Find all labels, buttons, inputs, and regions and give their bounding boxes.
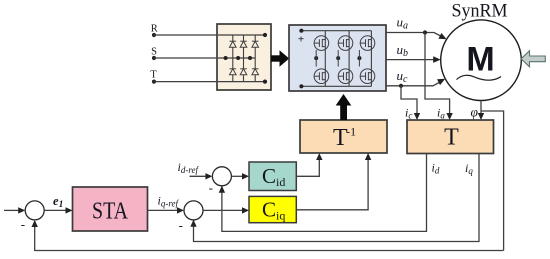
transistor Q5 <box>338 69 353 84</box>
rectifier leg 1 wire <box>232 35 234 82</box>
svg-text:SynRM: SynRM <box>452 1 508 22</box>
wire reference input <box>4 209 19 211</box>
wire d summing node to Cid <box>231 175 242 177</box>
wire phase T to rectifier bottom bus <box>154 81 265 83</box>
svg-text:-: - <box>209 180 213 195</box>
rectifier top bus wire <box>218 34 265 36</box>
rectifier block body <box>217 24 271 90</box>
transistor Q1 <box>314 36 329 51</box>
arrowhead id into d summing node <box>219 186 225 193</box>
arrowhead into Ciq <box>242 207 249 213</box>
inverter top bus dot <box>299 29 303 33</box>
diode D1 <box>230 41 237 47</box>
inverter bottom bus dot <box>299 84 303 88</box>
svg-text:+: + <box>298 34 304 46</box>
junction dot ic tap <box>399 84 403 88</box>
arrowhead uc into motor <box>437 76 447 85</box>
inverter leg 3 wire <box>370 31 372 87</box>
wire STA to q summing node <box>148 209 178 211</box>
rectifier top bus junction dot <box>263 33 267 37</box>
rectifier bottom bus junction dot <box>263 80 267 84</box>
wire ic tap down and over to T <box>401 86 417 114</box>
rectifier mid rail wire <box>218 57 255 59</box>
svg-text:M: M <box>466 41 494 79</box>
wire summing node 1 to STA <box>44 209 66 211</box>
arrowhead into d summing node <box>205 173 212 179</box>
wire ia tap down and over to T <box>425 33 450 114</box>
block T inverse body <box>300 120 387 153</box>
bold gate arrow T inverse to inverter <box>336 94 352 120</box>
arrowhead reference input <box>18 207 25 213</box>
wire Cid to T inverse <box>296 160 319 177</box>
wire speed feedback bottom rail <box>35 221 504 250</box>
svg-text:T: T <box>444 125 459 151</box>
diode D3 <box>252 41 259 47</box>
arrowhead into Cid <box>242 173 249 179</box>
junction dot ia tap <box>423 30 427 34</box>
transistor Q4 <box>314 69 329 84</box>
rectifier bottom bus wire <box>218 81 265 83</box>
svg-text:-: - <box>179 217 183 232</box>
summing node 1 <box>25 201 44 220</box>
wire id output of T <box>222 154 427 232</box>
arrowhead speed feedback into summing node 1 <box>32 220 38 227</box>
wire phase R to rectifier top bus <box>154 34 265 36</box>
wire q summing node to Ciq <box>203 209 243 211</box>
motor M1 circle <box>441 20 522 101</box>
arrowhead into q summing node <box>177 207 184 213</box>
svg-text:-: - <box>21 216 25 231</box>
rectifier leg 3 wire <box>254 35 256 82</box>
arrowhead into STA <box>66 207 73 213</box>
diode D2 <box>240 41 247 47</box>
inverter leg 2 wire <box>348 31 350 87</box>
transistor Q6 <box>360 69 375 84</box>
block T body <box>407 120 494 154</box>
rectifier mid rail junction dot 3 <box>248 56 252 60</box>
rectifier mid rail junction dot 1 <box>224 56 228 60</box>
motor wave mark <box>457 75 502 80</box>
arrowhead Cid into T inverse <box>316 153 322 160</box>
arrowhead ic into T <box>414 113 420 120</box>
svg-text:S: S <box>151 46 157 57</box>
svg-text:STA: STA <box>92 199 129 225</box>
arrowhead ub into motor <box>433 56 441 63</box>
inverter leg 1 wire <box>324 31 326 87</box>
node T junction dot <box>152 80 156 84</box>
wire ub inverter to motor <box>386 59 434 61</box>
arrowhead ua into motor <box>438 33 448 42</box>
summing node q <box>184 201 203 220</box>
diode D5 <box>240 69 247 75</box>
node S junction dot <box>152 56 156 60</box>
rectifier leg 2 wire <box>243 35 245 82</box>
transistor Q3 <box>360 36 375 51</box>
wire id-ref input <box>190 175 206 177</box>
arrowhead ia into T <box>446 113 452 120</box>
diode D6 <box>252 69 259 75</box>
rectifier mid rail junction dot 2 <box>236 56 240 60</box>
inverter gate node dot 1 <box>314 50 318 67</box>
DC-link bold arrow rectifier to inverter <box>271 50 289 66</box>
wire phi branch to right rail <box>481 111 504 251</box>
svg-text:R: R <box>151 24 158 35</box>
diode D4 <box>230 69 237 75</box>
inverter block body <box>289 25 386 91</box>
inverter gate node dot 3 <box>357 50 361 67</box>
wire Ciq to T inverse <box>296 160 368 210</box>
arrowhead phi into T <box>478 113 484 120</box>
arrowhead Ciq into T inverse <box>365 153 371 160</box>
wire phase S to rectifier mid rail <box>154 57 255 59</box>
inverter top bus wire <box>301 30 371 32</box>
svg-text:φ: φ <box>471 105 479 120</box>
load arrow into motor (gray) <box>521 51 545 67</box>
wire phi motor to T <box>480 101 482 114</box>
inverter bottom bus wire <box>301 85 371 87</box>
node R junction dot <box>152 33 156 37</box>
wire uc inverter to motor <box>386 82 441 86</box>
svg-text:T: T <box>150 70 157 81</box>
summing node d <box>212 167 231 186</box>
transistor Q2 <box>338 36 353 51</box>
controller Ciq body <box>249 196 296 222</box>
arrowhead iq into q summing node <box>190 220 196 227</box>
inverter gate node dot 2 <box>336 50 340 67</box>
wire iq output of T <box>194 154 480 242</box>
controller STA body <box>73 187 148 231</box>
controller Cid body <box>249 162 296 191</box>
wire ua inverter to motor <box>386 33 443 38</box>
